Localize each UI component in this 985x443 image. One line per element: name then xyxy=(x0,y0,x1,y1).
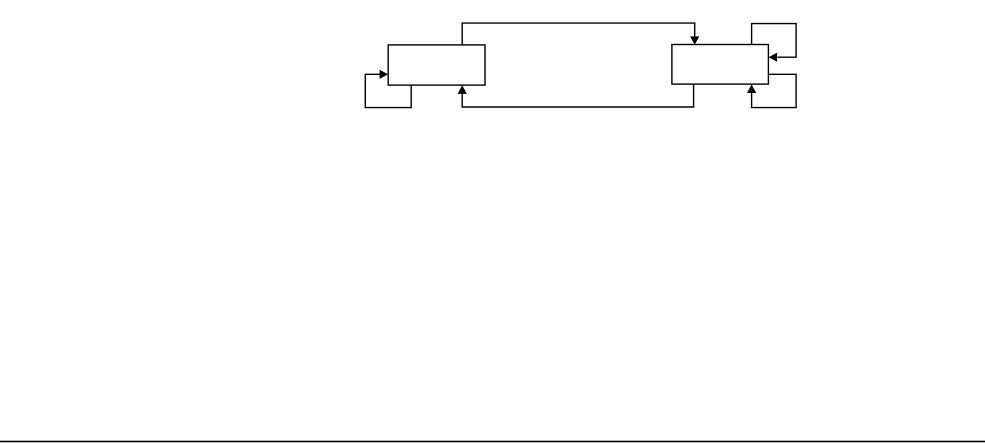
arrowhead right into left box left side xyxy=(380,70,389,79)
wire: bottom path from right box to left box xyxy=(462,84,693,107)
arrowhead down into right box top xyxy=(690,36,699,44)
page bottom rule xyxy=(0,441,985,443)
wire: left self-loop xyxy=(365,74,411,107)
wire: bottom-right self-loop xyxy=(752,74,797,107)
left state box xyxy=(388,45,485,85)
arrowhead left into right box right side xyxy=(769,53,778,62)
arrowhead up into left box bottom xyxy=(458,85,467,94)
right state box xyxy=(672,45,769,85)
wire: top-right self-loop xyxy=(752,24,797,58)
wire: top path from left box to right box xyxy=(462,23,695,45)
arrowhead up into right box bottom xyxy=(747,84,756,93)
